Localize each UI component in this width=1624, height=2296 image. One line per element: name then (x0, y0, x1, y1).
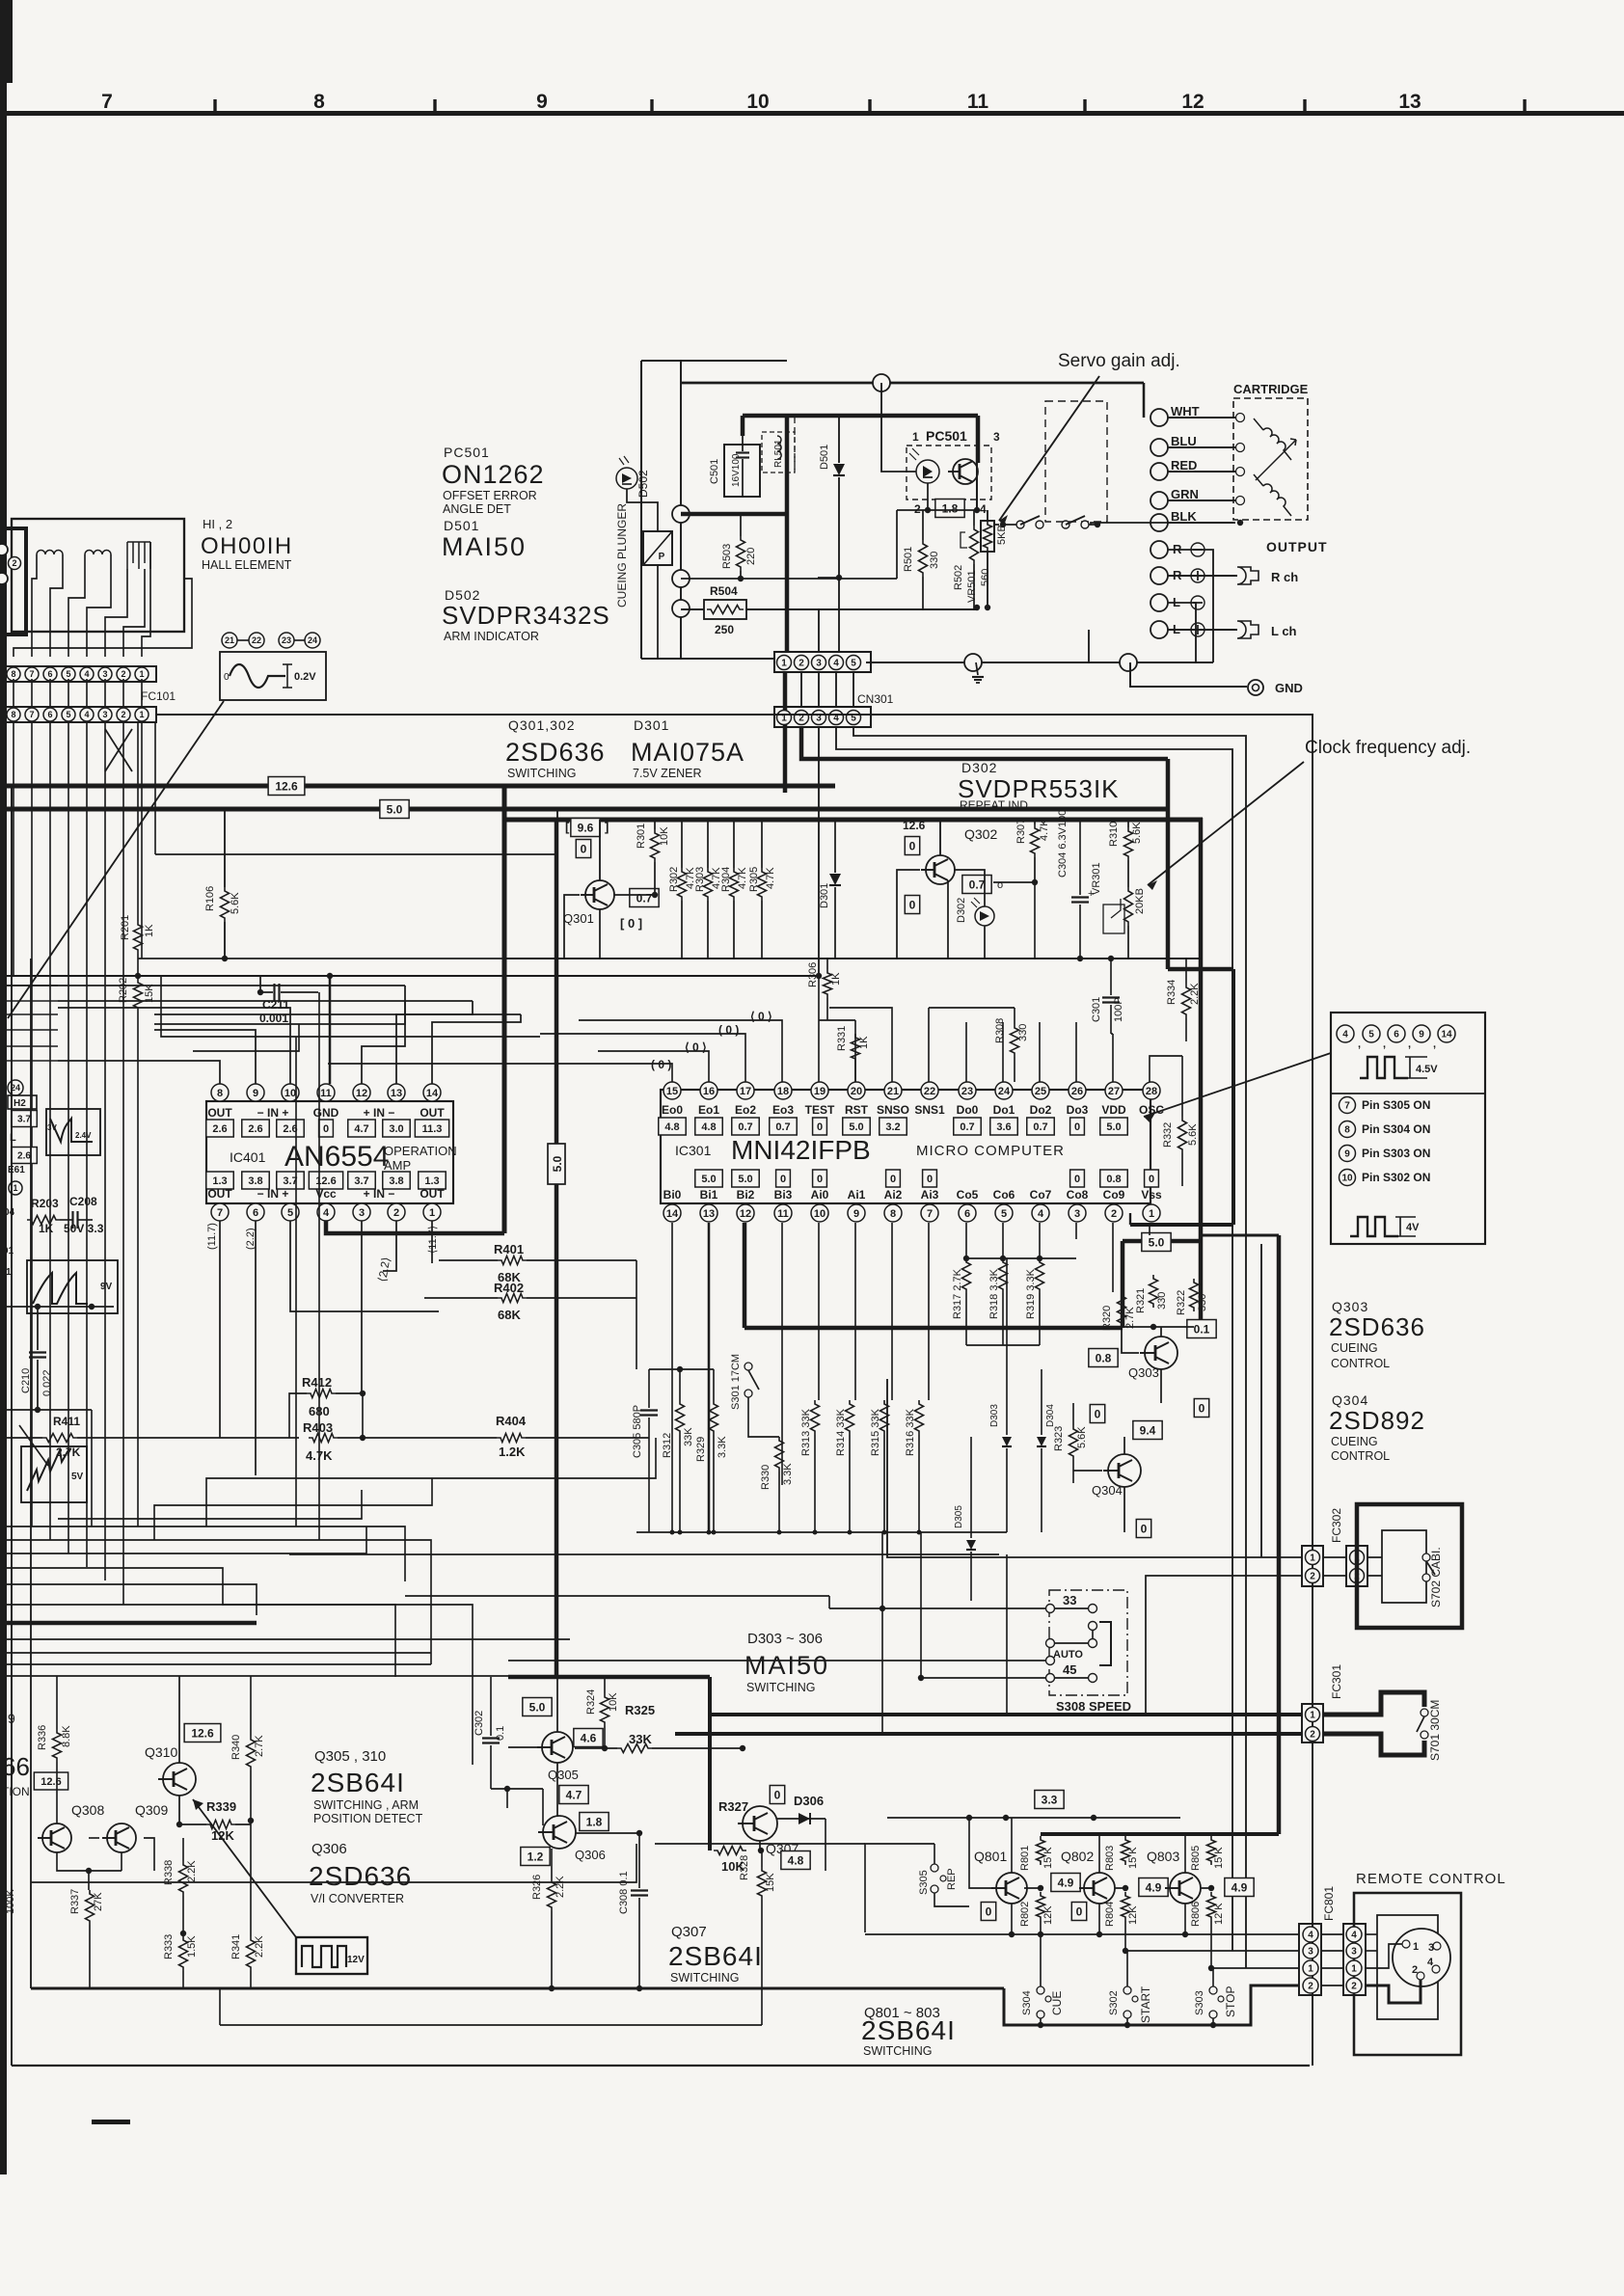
output jack Lch (1168, 629, 1237, 631)
thick drop x816 through CN301 (785, 416, 790, 652)
svg-text:11: 11 (777, 1208, 789, 1220)
svg-text:R106: R106 (204, 886, 216, 911)
svg-text:9: 9 (536, 91, 548, 113)
callout arrow to 5KB pot (999, 376, 1099, 521)
resistor R330 3.3K (775, 1437, 784, 1472)
svg-text:R321: R321 (1135, 1288, 1147, 1313)
pot VR501 560 R502 (970, 526, 979, 564)
resistor R337 27K (86, 1890, 95, 1925)
svg-text:0.7: 0.7 (775, 1121, 790, 1133)
wire q302 emitter down (947, 880, 949, 959)
svg-text:R302: R302 (668, 867, 680, 892)
wire y994 (138, 958, 504, 959)
svg-text:HI , 2: HI , 2 (203, 517, 232, 531)
svg-text:2SB64I: 2SB64I (311, 1768, 405, 1797)
svg-text:R504: R504 (710, 584, 738, 598)
svg-text:D502: D502 (636, 470, 650, 498)
wire REP row extension (655, 1843, 865, 1845)
resistor R334 2.2K (1182, 984, 1191, 1018)
svg-text:Co8: Co8 (1067, 1188, 1089, 1202)
capacitor C211 0.001 (260, 991, 273, 993)
thick bus y431 (743, 414, 978, 419)
svg-text:1.8: 1.8 (942, 501, 959, 515)
thick jog bottom right (1004, 1985, 1299, 2025)
cartridge dashed box (1233, 398, 1308, 520)
svg-text:Clock frequency adj.: Clock frequency adj. (1305, 738, 1471, 758)
svg-text:D301: D301 (819, 883, 830, 908)
svg-text:R325: R325 (625, 1703, 655, 1717)
svg-text:Ai0: Ai0 (811, 1188, 829, 1202)
svg-text:13: 13 (703, 1208, 715, 1220)
svg-text:0: 0 (817, 1174, 823, 1185)
svg-text:2: 2 (1351, 1982, 1357, 1992)
svg-text:100K: 100K (5, 1889, 16, 1914)
svg-text:Co7: Co7 (1030, 1188, 1052, 1202)
svg-text:D303 ~ 306: D303 ~ 306 (747, 1631, 823, 1647)
svg-text:− IN +: − IN + (257, 1106, 289, 1120)
svg-text:22: 22 (252, 635, 261, 645)
svg-text:RL501: RL501 (773, 439, 784, 468)
svg-text:3: 3 (1074, 1208, 1080, 1220)
wires fc801 to DIN (1366, 1933, 1377, 1935)
wire row y632 (681, 608, 704, 610)
svg-text:5.6K: 5.6K (1131, 822, 1143, 844)
svg-text:8: 8 (11, 710, 15, 719)
svg-text:R306: R306 (807, 962, 819, 987)
svg-text:2.2K: 2.2K (555, 1876, 566, 1898)
thick net y1287 (1123, 1239, 1203, 1244)
svg-text:R305: R305 (748, 867, 760, 892)
svg-text:(11.7): (11.7) (206, 1223, 218, 1250)
wire cn301 row2 pin4 right (836, 727, 1232, 1951)
wires hall to fc101 (32, 569, 37, 657)
voltage 12.6 left edge box (34, 1772, 68, 1790)
svg-text:0.8: 0.8 (1096, 1351, 1112, 1364)
svg-text:560: 560 (980, 569, 991, 586)
svg-text:2SD636: 2SD636 (505, 738, 606, 767)
svg-text:1: 1 (1308, 1964, 1313, 1975)
svg-text:R336: R336 (37, 1725, 48, 1750)
svg-text:4: 4 (1351, 1931, 1357, 1941)
wires left mid y1355 (7, 1306, 114, 1308)
svg-text:,: , (1383, 1039, 1386, 1050)
resistors R317 R318 R319 (962, 1258, 971, 1293)
svg-text:R340: R340 (230, 1735, 242, 1760)
voltage 0 box q301 (576, 840, 590, 858)
svg-text:17: 17 (740, 1086, 751, 1097)
svg-text:Q301,302: Q301,302 (508, 717, 576, 733)
svg-text:4.9: 4.9 (1146, 1880, 1162, 1894)
wire 45 row left (508, 1660, 1046, 1661)
wire row y1655 (405, 1595, 829, 1597)
svg-text:1: 1 (1351, 1964, 1357, 1975)
scope box 12V square wave (296, 1937, 367, 1974)
optocoupler PC501 dashed box (907, 446, 991, 500)
svg-text:12K: 12K (1042, 1905, 1054, 1925)
resistor R340 2.7K (247, 1736, 256, 1770)
svg-text:11.3: 11.3 (422, 1123, 443, 1135)
PC501 LED (916, 460, 939, 483)
resistor R306 1K (824, 969, 832, 998)
svg-text:5.0: 5.0 (738, 1174, 752, 1185)
scope callout circled 21-24 (222, 633, 237, 648)
svg-text:24: 24 (308, 635, 317, 645)
switch contacts row y544 (1016, 521, 1024, 528)
svg-text:1: 1 (1310, 1553, 1315, 1564)
svg-text:2.7K: 2.7K (254, 1735, 265, 1757)
svg-text:12.6: 12.6 (903, 819, 926, 832)
svg-text:1K: 1K (144, 924, 155, 937)
wire y2100 r328 (220, 2024, 762, 2026)
svg-text:3V: 3V (47, 1123, 57, 1132)
svg-text:IC401: IC401 (230, 1149, 266, 1165)
wire y600 (681, 578, 897, 580)
svg-text:1: 1 (139, 669, 144, 679)
svg-text:,: , (1358, 1039, 1361, 1050)
svg-text:CONTROL: CONTROL (1331, 1357, 1390, 1370)
svg-text:3: 3 (102, 669, 107, 679)
svg-text:Q307: Q307 (671, 1924, 707, 1940)
wires fc101 between rows (13, 679, 14, 707)
svg-text:21: 21 (225, 635, 234, 645)
L plus channel (1150, 621, 1168, 638)
svg-text:R337: R337 (69, 1889, 81, 1914)
wire y1700 (7, 1638, 570, 1640)
callout arrow scope to R339 (193, 1799, 296, 1937)
svg-text:4.6: 4.6 (581, 1731, 597, 1744)
svg-text:R313 33K: R313 33K (800, 1408, 812, 1456)
wire row y1533 (206, 1438, 656, 1526)
relay box second vertical (680, 361, 682, 505)
wire y1012 (7, 975, 819, 977)
svg-text:2: 2 (1308, 1982, 1313, 1992)
wire r106 column (224, 809, 226, 887)
svg-text:GND: GND (1275, 681, 1303, 695)
svg-text:2.2K: 2.2K (186, 1860, 198, 1882)
svg-text:R331: R331 (836, 1026, 848, 1051)
svg-text:MAI075A: MAI075A (631, 738, 744, 767)
svg-text:Do2: Do2 (1030, 1103, 1052, 1117)
voltage 4.9 box q803 (1225, 1878, 1254, 1897)
frame x1358 bottom right (1309, 2025, 1311, 2066)
svg-text:250: 250 (715, 623, 734, 636)
svg-text:C211: C211 (262, 998, 289, 1012)
svg-text:4.5V: 4.5V (1416, 1064, 1438, 1075)
svg-text:0.7: 0.7 (969, 878, 986, 891)
wires q307 (759, 1841, 761, 1850)
wires r803 r804 (1123, 1885, 1128, 1891)
svg-text:+ IN −: + IN − (364, 1187, 395, 1201)
voltage 1.8 box (580, 1813, 609, 1831)
wire q309 base to q310 (89, 1837, 99, 1839)
left page edge bar (0, 0, 7, 2174)
svg-text:13: 13 (391, 1088, 402, 1099)
svg-text:OUT: OUT (420, 1187, 445, 1201)
IC301 box (661, 1090, 1150, 1203)
wire row y1589 (636, 1531, 1007, 1533)
svg-text:0.2V: 0.2V (294, 671, 316, 683)
svg-text:TEST: TEST (805, 1103, 835, 1117)
ruler line (0, 111, 1624, 116)
left border x12 (11, 786, 13, 2066)
hall partial component thick box (3, 528, 26, 635)
svg-text:R301: R301 (636, 824, 647, 849)
svg-text:3: 3 (359, 1207, 365, 1219)
svg-text:6: 6 (253, 1207, 258, 1219)
wire y1420 c305 r312 r329 (649, 1368, 714, 1370)
svg-text:5: 5 (66, 669, 70, 679)
svg-text:[: [ (565, 820, 570, 834)
svg-text:4V: 4V (1406, 1222, 1420, 1233)
wire x849 down from y632 (818, 609, 820, 652)
svg-text:R502: R502 (953, 565, 964, 590)
resistor R504 250 in box (704, 600, 746, 619)
R plus channel (1150, 567, 1168, 584)
svg-text:SWITCHING: SWITCHING (746, 1681, 816, 1694)
S308 speed dash-dot box (1049, 1590, 1127, 1695)
svg-text:24: 24 (998, 1086, 1011, 1097)
svg-text:1K: 1K (830, 972, 842, 986)
svg-text:R327: R327 (718, 1799, 748, 1814)
svg-text:MAI50: MAI50 (442, 532, 527, 561)
thick frame x1326 (1277, 1235, 1282, 1834)
wire bottom row left (921, 1677, 1046, 1679)
svg-text:1: 1 (13, 1183, 17, 1193)
svg-text:10: 10 (284, 1088, 296, 1099)
cartridge stylus arrow (1256, 439, 1296, 480)
svg-text:1: 1 (1310, 1711, 1315, 1721)
wire q310 collector (178, 1676, 180, 1763)
connector FC302 left half (1302, 1546, 1323, 1586)
connector CN301 row2 (774, 707, 871, 727)
thick drop x1014 (976, 416, 981, 463)
thick frame right x1245 (1199, 818, 1204, 1328)
IC301 bottom pin wires (671, 1223, 673, 1532)
wire q306 collector to c308 (576, 1832, 639, 1834)
svg-text:11: 11 (320, 1088, 332, 1099)
svg-text:C308 0.1: C308 0.1 (618, 1871, 630, 1914)
svg-text:5: 5 (1001, 1208, 1007, 1220)
svg-text:0: 0 (774, 1788, 781, 1801)
R minus channel (1150, 541, 1168, 558)
svg-text:OPERATION: OPERATION (384, 1144, 457, 1158)
svg-text:28: 28 (1146, 1086, 1157, 1097)
svg-text:18: 18 (777, 1086, 789, 1097)
svg-text:0.8: 0.8 (1106, 1174, 1121, 1185)
thick vert x736 down to R327 (708, 1677, 712, 1850)
box 2.6 (12, 1148, 38, 1164)
wire pc501 pin1 (881, 383, 916, 472)
wire vertical x1308 (1260, 1244, 1262, 1557)
IC301 bottom pins (663, 1204, 681, 1222)
transistor Q301 (585, 880, 614, 909)
svg-text:Servo gain adj.: Servo gain adj. (1058, 351, 1180, 371)
wire vertical x915 (881, 1532, 883, 1734)
svg-text:R320: R320 (1101, 1306, 1113, 1331)
svg-text:⟨ 0 ⟩: ⟨ 0 ⟩ (685, 1040, 707, 1054)
gnd terminal (1248, 680, 1263, 695)
wire r403 r404 row y1491 (77, 1437, 220, 1439)
svg-text:L ch: L ch (1271, 624, 1297, 638)
resistor R329 3.3K (710, 1400, 718, 1435)
thick net drop right x1211 (1166, 759, 1171, 969)
thick net drop x1164 (1121, 1241, 1125, 1328)
svg-text:IC301: IC301 (675, 1143, 712, 1158)
wire vertical x307 long (295, 1037, 297, 1526)
svg-text:68K: 68K (498, 1308, 521, 1322)
svg-text:12.6: 12.6 (275, 779, 298, 793)
svg-text:CUE: CUE (1050, 1991, 1064, 2015)
svg-text:3.8: 3.8 (389, 1175, 403, 1187)
capacitor C301 100P (1110, 959, 1112, 995)
svg-text:15K: 15K (765, 1873, 776, 1892)
svg-text:HALL ELEMENT: HALL ELEMENT (202, 558, 292, 572)
diode D501 (838, 417, 840, 463)
svg-text:12: 12 (356, 1088, 367, 1099)
legend divider (1331, 1093, 1485, 1094)
svg-text:4: 4 (84, 669, 89, 679)
thick drop x770 to C501 (741, 416, 745, 436)
wire q306 base row y1855 (491, 1788, 543, 1790)
svg-text:R329: R329 (695, 1437, 707, 1462)
svg-text:C301: C301 (1091, 997, 1102, 1022)
resistors R302 R303 R304 R305 (678, 868, 687, 901)
wire left edge stubs (7, 985, 58, 986)
resistor R501 330 (919, 540, 928, 577)
wire ground row y687 (866, 662, 1213, 663)
svg-text:S702 CABI.: S702 CABI. (1429, 1547, 1443, 1607)
svg-text:Bi0: Bi0 (663, 1188, 682, 1202)
legend box (1331, 1013, 1485, 1244)
ground node circles (964, 654, 982, 671)
svg-text:15 K: 15 K (1042, 1847, 1054, 1869)
svg-text:50V 3.3: 50V 3.3 (64, 1222, 104, 1235)
svg-text:o: o (997, 879, 1003, 891)
svg-text:R312: R312 (662, 1433, 673, 1458)
svg-text:R803: R803 (1104, 1846, 1116, 1871)
svg-text:Do3: Do3 (1067, 1103, 1089, 1117)
svg-text:R503: R503 (721, 544, 733, 569)
svg-text:9: 9 (1344, 1149, 1350, 1160)
svg-text:R201: R201 (120, 915, 131, 940)
svg-text:5.0: 5.0 (529, 1700, 546, 1714)
svg-text:3: 3 (102, 710, 107, 719)
wire crossing X below fc101 (105, 729, 132, 771)
svg-text:23: 23 (282, 635, 291, 645)
remote control box (1354, 1893, 1461, 2055)
voltage 1.2 box (521, 1848, 550, 1866)
svg-text:OFFSET ERROR: OFFSET ERROR (443, 489, 537, 502)
svg-text:33K: 33K (629, 1732, 652, 1746)
svg-text:1: 1 (1413, 1941, 1419, 1953)
svg-text:1.3: 1.3 (424, 1175, 439, 1187)
plunger box (643, 531, 672, 565)
svg-text:R203: R203 (31, 1197, 59, 1210)
svg-text:33: 33 (1063, 1593, 1076, 1607)
svg-text:330: 330 (929, 552, 940, 569)
connector FC101 row2 (4, 707, 156, 722)
svg-text:1.3: 1.3 (212, 1175, 227, 1187)
svg-text:R310: R310 (1108, 822, 1120, 847)
svg-text:3.0: 3.0 (389, 1123, 403, 1135)
svg-text:− IN +: − IN + (257, 1187, 289, 1201)
svg-text:VR501: VR501 (966, 570, 978, 603)
relay box left edge (640, 361, 642, 659)
svg-text:1.5K: 1.5K (186, 1935, 198, 1958)
svg-text:R202: R202 (118, 978, 129, 1003)
svg-text:3: 3 (1308, 1947, 1313, 1958)
transistor Q803 (1170, 1873, 1201, 1904)
svg-text:7: 7 (1344, 1101, 1350, 1112)
svg-text:SWITCHING , ARM: SWITCHING , ARM (313, 1798, 419, 1812)
resistor R323 5.6K (1069, 1425, 1078, 1460)
transistor Q303 (1145, 1337, 1177, 1369)
legend waveform 4.5V (1360, 1057, 1408, 1078)
svg-text:330: 330 (1017, 1024, 1029, 1041)
inner left border x32 (30, 959, 32, 1988)
svg-text:CUEING: CUEING (1331, 1435, 1378, 1448)
svg-text:VR301: VR301 (1091, 862, 1102, 895)
svg-text:0: 0 (1074, 1174, 1080, 1185)
thick wire into FC301 pin2 (675, 1732, 1302, 1736)
svg-text:R404: R404 (496, 1414, 527, 1428)
voltage 0 box q304 below (1136, 1520, 1150, 1538)
svg-text:D302: D302 (961, 760, 997, 775)
svg-text:4.8: 4.8 (664, 1121, 679, 1133)
dashed region around switches (1045, 401, 1107, 522)
svg-text:POSITION DETECT: POSITION DETECT (313, 1812, 423, 1825)
pot VR301 20KB (1124, 887, 1133, 926)
svg-text:[ 0 ]: [ 0 ] (620, 916, 642, 931)
L minus channel (1150, 594, 1168, 611)
svg-text:D301: D301 (634, 717, 669, 733)
svg-text:8.8K: 8.8K (61, 1725, 72, 1747)
svg-text:MAI50: MAI50 (744, 1651, 829, 1680)
svg-text:S304: S304 (1021, 1990, 1033, 2015)
svg-text:10: 10 (814, 1208, 826, 1220)
svg-text:4.7K: 4.7K (1039, 819, 1050, 841)
svg-text:3: 3 (816, 659, 822, 669)
voltage 4.9 box q802 (1139, 1878, 1168, 1897)
svg-text:14: 14 (666, 1208, 679, 1220)
wires q308 q309 emitters (57, 1852, 122, 1871)
svg-text:S301 17CM: S301 17CM (730, 1354, 742, 1410)
connector CN301 row1 (774, 652, 871, 672)
OSC callout diagonal (1144, 1053, 1331, 1117)
connector FC101 row1 (4, 666, 156, 682)
svg-text:19: 19 (814, 1086, 826, 1097)
box H2 (8, 1095, 37, 1109)
IC301 top pin wires (328, 1064, 672, 1082)
svg-text:R324: R324 (585, 1689, 597, 1715)
svg-text:H2: H2 (14, 1098, 26, 1109)
resistor R202 15K (134, 979, 143, 1012)
svg-text:Q309: Q309 (135, 1802, 168, 1818)
svg-text:4: 4 (833, 659, 839, 669)
wire switch to BLK (1091, 523, 1235, 525)
voltage 5.0 box lower (523, 1698, 552, 1716)
svg-text:14: 14 (1441, 1030, 1452, 1040)
scope box 3V 2.4V (46, 1109, 100, 1155)
output jack Rch (1168, 575, 1237, 577)
transistor Q302 (926, 855, 955, 884)
svg-text:REPEAT IND: REPEAT IND (960, 798, 1028, 812)
svg-text:C305 580P: C305 580P (632, 1405, 643, 1458)
wires q801 (1011, 1818, 1013, 1873)
svg-text:2.2K: 2.2K (254, 1935, 265, 1958)
svg-text:1.2: 1.2 (528, 1850, 544, 1863)
svg-text:SWITCHING: SWITCHING (670, 1971, 740, 1985)
